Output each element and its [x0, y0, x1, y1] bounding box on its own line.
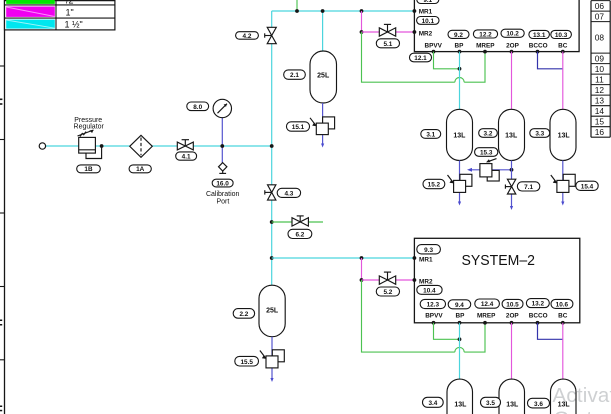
svg-text:12.1: 12.1 [414, 55, 427, 62]
pressure regulator 1B [74, 117, 105, 159]
frame tick marks [0, 66, 5, 360]
svg-text:10.5: 10.5 [506, 302, 519, 309]
node: junction top header / green stub [295, 9, 299, 13]
legend swatch cyan 1 1/2" [6, 20, 55, 29]
wire: green BPVV elbow [434, 52, 460, 69]
regulator 15.5 [260, 350, 284, 368]
svg-text:3.2: 3.2 [484, 131, 493, 138]
svg-text:12: 12 [595, 85, 605, 95]
wire: green stub to top edge [296, 0, 298, 11]
label 8.0 [187, 102, 209, 111]
node: junction main line / riser [270, 144, 274, 148]
label 13.2 [526, 299, 549, 308]
label 12.4 [475, 299, 500, 308]
svg-text:13.2: 13.2 [532, 301, 545, 308]
svg-text:13L: 13L [506, 401, 519, 408]
legend table [5, 0, 115, 30]
svg-text:4.3: 4.3 [284, 190, 293, 197]
wire: blue line tank 2.1 to regulator 15.1 [322, 103, 324, 145]
label 2.2 [233, 309, 254, 319]
right reference table [591, 1, 610, 138]
tank 2.1 25L [310, 51, 337, 103]
svg-text:10.6: 10.6 [556, 302, 569, 309]
node: MR2 connection SYSTEM-1 [413, 30, 417, 34]
wire: green BPVV elbow SYSTEM-2 [434, 323, 460, 340]
svg-text:25L: 25L [266, 307, 279, 314]
svg-text:12.3: 12.3 [427, 302, 440, 309]
svg-text:BC: BC [558, 313, 568, 320]
label 3.2 [479, 129, 498, 138]
SYSTEM-1 box [414, 0, 579, 52]
tank 3.6 13L (cut) [551, 379, 577, 414]
wire: magenta branch to MR2 SYSTEM-2 [362, 279, 415, 281]
node: MR1 connection SYSTEM-1 [413, 9, 417, 13]
node: junction 5.1 branch [360, 30, 364, 34]
svg-text:2OP: 2OP [506, 313, 520, 320]
svg-text:09: 09 [595, 54, 605, 64]
svg-text:BPVV: BPVV [424, 42, 442, 49]
label 4.3 [277, 188, 300, 197]
label 6.2 [288, 229, 312, 238]
svg-text:16.0: 16.0 [216, 180, 229, 187]
svg-text:1B: 1B [84, 166, 93, 173]
wire: blue drop tank 2.2 through 15.5 [271, 337, 273, 380]
svg-text:BP: BP [455, 42, 465, 49]
valve 7.1 [505, 179, 515, 194]
label 10.5 [502, 299, 523, 308]
wire: green hop over BP drop [455, 347, 464, 352]
wire: magenta drop to 5.2 branch [361, 258, 363, 280]
svg-text:11: 11 [595, 75, 604, 85]
label 9.1 (cut) [417, 0, 439, 4]
svg-text:2.1: 2.1 [290, 72, 299, 79]
label 4.1 [176, 152, 197, 160]
svg-text:13L: 13L [558, 401, 571, 408]
svg-text:Regulator: Regulator [74, 124, 105, 131]
svg-text:MR2: MR2 [419, 279, 433, 286]
svg-text:Calibration: Calibration [206, 191, 240, 198]
label 15.1 [287, 122, 310, 131]
wire: main cyan supply line [46, 145, 272, 147]
valve 4.3 [265, 185, 276, 200]
calibration port 16.0 [219, 163, 227, 174]
label 5.2 [376, 287, 399, 296]
svg-text:12.4: 12.4 [481, 301, 494, 308]
svg-text:Port: Port [216, 198, 229, 205]
svg-text:SYSTEM–2: SYSTEM–2 [462, 252, 536, 269]
svg-text:1": 1" [66, 7, 74, 17]
wire: cyan lower header [272, 257, 415, 259]
label 13.1 [529, 30, 550, 38]
nodes: SYSTEM-1 bottom connections [432, 50, 565, 54]
svg-text:15.4: 15.4 [581, 183, 594, 190]
svg-text:Go to Se: Go to Se [554, 408, 611, 414]
svg-text:08: 08 [595, 32, 605, 42]
node: junction top header / tank drop [321, 9, 325, 13]
svg-text:3.1: 3.1 [426, 132, 435, 139]
svg-text:16: 16 [595, 127, 605, 137]
svg-text:10.4: 10.4 [423, 288, 436, 295]
tank 3.1 13L [447, 109, 473, 160]
label 15.5 [235, 356, 259, 366]
svg-text:BP: BP [455, 313, 465, 320]
svg-text:BCCO: BCCO [529, 313, 548, 320]
node: junction 5.2 branch [360, 278, 364, 282]
node: junction top header / MR2 branch [360, 9, 364, 13]
svg-text:9.3: 9.3 [424, 247, 433, 254]
svg-text:5.1: 5.1 [383, 41, 392, 48]
svg-text:MR1: MR1 [419, 8, 433, 15]
svg-text:MREP: MREP [477, 313, 496, 320]
svg-text:3.3: 3.3 [535, 131, 544, 138]
label 15.2 [423, 179, 445, 188]
filter 1A [130, 135, 153, 157]
frame row-letter fragments [0, 99, 2, 412]
wire: navy BCCO elbow [538, 52, 563, 69]
wire: green drop from 5.1 branch [362, 32, 455, 82]
svg-text:13L: 13L [454, 401, 467, 408]
label 10.6 [551, 299, 573, 308]
tank 3.4 13L (cut) [447, 379, 473, 414]
svg-text:MREP: MREP [476, 42, 495, 49]
svg-text:10: 10 [595, 64, 605, 74]
label 2.1 [284, 70, 306, 79]
tank 3.5 13L (cut) [499, 379, 525, 414]
wire: navy BCCO elbow SYSTEM-2 [538, 323, 563, 340]
svg-text:6.2: 6.2 [295, 232, 304, 239]
node: junction 15.3 branch / 3.2 drop [510, 168, 514, 172]
svg-text:/2": /2" [66, 0, 77, 5]
SYSTEM-2 box [414, 238, 579, 322]
svg-text:2OP: 2OP [506, 42, 520, 49]
wire: green hop over BP line [455, 77, 464, 82]
nodes: SYSTEM-2 bottom connections [432, 321, 565, 325]
svg-text:1A: 1A [136, 166, 145, 173]
svg-text:8.0: 8.0 [193, 104, 202, 111]
svg-text:12.2: 12.2 [479, 31, 492, 38]
svg-text:3.5: 3.5 [486, 400, 495, 407]
valve 5.1 [379, 24, 395, 36]
label 16.0 [212, 179, 233, 187]
node: junction lower header / 5.2 branch [360, 256, 364, 260]
node: MR1 connection SYSTEM-2 [413, 256, 417, 260]
wire: magenta 2OP drop to tank 3.2 [511, 52, 513, 110]
svg-text:13: 13 [595, 96, 605, 106]
label 12.2 [473, 30, 497, 38]
svg-text:07: 07 [595, 12, 605, 22]
regulator 15.2 [448, 174, 472, 192]
wire: cyan top header [272, 10, 415, 12]
svg-text:15.1: 15.1 [292, 124, 305, 131]
svg-text:10.1: 10.1 [422, 18, 435, 25]
gauge 8.0 [213, 99, 231, 163]
wire: green to MREP SYSTEM-2 [464, 323, 485, 352]
svg-text:13L: 13L [558, 133, 571, 140]
svg-text:BC: BC [558, 42, 568, 49]
wire: blue drop tank 3.3 through 15.4 [562, 161, 564, 204]
label 10.3 [551, 30, 572, 38]
tank 3.3 13L [550, 109, 576, 160]
svg-text:25L: 25L [317, 72, 330, 79]
svg-text:4.1: 4.1 [182, 154, 191, 161]
svg-text:BCCO: BCCO [529, 42, 548, 49]
wire: green to MREP [464, 52, 485, 83]
svg-text:14: 14 [595, 106, 605, 116]
label 4.2 [236, 32, 259, 40]
svg-text:15: 15 [595, 117, 605, 127]
wire: magenta 2OP drop to tank 3.5 [511, 323, 513, 380]
label 12.3 [420, 299, 445, 308]
svg-text:13.1: 13.1 [533, 32, 546, 39]
svg-text:15.3: 15.3 [480, 150, 493, 157]
wire: magenta branch to MR2 [362, 31, 415, 33]
wire: blue 15.3 branch with left arrow [469, 169, 512, 171]
svg-text:2.2: 2.2 [239, 311, 248, 318]
label 12.1 [410, 53, 432, 62]
text BPVV BP MREP 2OP BCCO BC [424, 42, 567, 49]
svg-text:4.2: 4.2 [243, 33, 252, 40]
tank 2.2 25L [259, 285, 285, 337]
label 9.4 [448, 300, 471, 309]
node: BPVV/BP tie [458, 67, 462, 71]
regulator 15.3 [480, 159, 499, 181]
label 10.2 [501, 29, 524, 37]
label 3.3 [530, 129, 550, 138]
wire: magenta drop to 5.1 branch [361, 11, 363, 32]
wire: blue drop tank 3.1 through 15.2 [459, 161, 461, 204]
label 1A [129, 165, 151, 173]
svg-text:10.3: 10.3 [555, 32, 568, 39]
svg-text:3.6: 3.6 [534, 401, 543, 408]
valve 6.2 [292, 216, 308, 226]
regulator 15.4 [551, 174, 575, 192]
svg-text:MR2: MR2 [419, 31, 433, 38]
svg-text:7.1: 7.1 [524, 184, 533, 191]
frame border line [4, 0, 6, 414]
label 15.4 [576, 181, 598, 190]
wire: magenta BC drop to tank 3.3 [562, 52, 564, 110]
svg-text:10.2: 10.2 [506, 31, 519, 38]
wire: blue drop tank 3.2 through valve 7.1 [511, 161, 513, 208]
wire: cyan BP drop to tank 3.4 [459, 323, 461, 380]
wire: green branch to valve 6.2 [272, 221, 323, 223]
svg-text:13L: 13L [505, 133, 518, 140]
valve 5.2 [379, 272, 395, 284]
label 9.2 [448, 30, 469, 38]
label 3.4 [423, 397, 444, 407]
label 1B [77, 165, 101, 173]
node: junction riser / lower header [270, 256, 274, 260]
legend swatch magenta 1" [6, 7, 55, 17]
svg-text:3.4: 3.4 [428, 400, 437, 407]
svg-text:BPVV: BPVV [425, 313, 443, 320]
svg-text:06: 06 [595, 1, 605, 11]
svg-text:9.2: 9.2 [454, 32, 463, 39]
node: junction riser / 6.2 branch [270, 220, 274, 224]
label 3.5 [481, 397, 501, 407]
wire: green drop from 5.2 branch [362, 280, 455, 352]
svg-text:5.2: 5.2 [383, 289, 392, 296]
label 7.1 [517, 182, 539, 191]
node: MR2 connection SYSTEM-2 [413, 278, 417, 282]
wire: magenta BC drop to tank 3.6 [562, 323, 564, 380]
node: supply inlet circle [39, 143, 45, 149]
node: gauge tee junction [220, 144, 224, 148]
svg-text:1 ½": 1 ½" [65, 20, 83, 30]
svg-text:MR1: MR1 [419, 256, 433, 263]
legend swatch green 1/2" [6, 0, 55, 4]
valve 4.2 [265, 27, 277, 43]
svg-text:15.2: 15.2 [428, 182, 441, 189]
label 3.6 [528, 398, 550, 408]
label 9.3 [417, 245, 441, 254]
wire: cyan drop to tank 2.1 [322, 11, 324, 51]
svg-text:9.4: 9.4 [455, 302, 464, 309]
wire: cyan riser/main vertical [271, 11, 273, 286]
label 10.1 [417, 17, 439, 25]
svg-text:13L: 13L [453, 133, 466, 140]
label 15.3 [475, 148, 498, 157]
label 10.4 [417, 285, 442, 294]
node: BPVV/BP tie SYSTEM-2 [458, 337, 462, 341]
tank 3.2 13L [499, 109, 525, 160]
label 3.1 [421, 130, 441, 139]
valve 4.1 [177, 140, 193, 150]
regulator 15.1 [310, 117, 335, 135]
text BPVV BP MREP 2OP BCCO BC [425, 313, 568, 320]
label 5.1 [376, 39, 399, 48]
svg-text:9.1: 9.1 [423, 0, 432, 4]
svg-text:15.5: 15.5 [240, 359, 253, 366]
wire: cyan BP drop to tank 3.1 [459, 52, 461, 110]
